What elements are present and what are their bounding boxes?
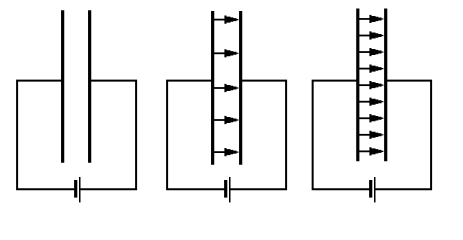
field arrow 4 circuit3 bbox=[358, 65, 384, 73]
field arrow 2 circuit2 bbox=[213, 49, 239, 57]
field arrow 3 circuit3 bbox=[358, 48, 384, 56]
battery B3 negative terminal bbox=[369, 180, 372, 198]
capacitor C2 right plate bbox=[239, 11, 242, 165]
field arrow 5 circuit2 bbox=[213, 148, 239, 156]
wire circuit1 right loop bbox=[80, 81, 136, 190]
battery B1 positive terminal bbox=[79, 177, 81, 202]
wire circuit3 left loop bbox=[313, 81, 371, 190]
battery B2 negative terminal bbox=[224, 180, 227, 198]
field arrow 5 circuit3 bbox=[358, 81, 384, 89]
capacitor C2 left plate bbox=[211, 11, 214, 165]
capacitor C3 right plate bbox=[384, 9, 387, 162]
wire circuit2 left loop bbox=[167, 81, 226, 190]
capacitor C1 left plate bbox=[61, 10, 64, 163]
field arrow 9 circuit3 bbox=[358, 147, 384, 155]
field arrow 4 circuit2 bbox=[213, 116, 239, 124]
battery B1 negative terminal bbox=[74, 180, 77, 198]
field arrow 7 circuit3 bbox=[358, 114, 384, 122]
field arrow 3 circuit2 bbox=[213, 84, 239, 92]
capacitor C1 right plate bbox=[88, 10, 91, 163]
wire circuit2 right loop bbox=[230, 81, 286, 190]
wire circuit3 right loop bbox=[375, 81, 431, 190]
field arrow 8 circuit3 bbox=[358, 131, 384, 139]
battery B2 positive terminal bbox=[229, 177, 231, 202]
wire circuit1 left loop bbox=[17, 81, 76, 190]
field arrow 2 circuit3 bbox=[358, 31, 384, 39]
field arrow 1 circuit3 bbox=[358, 15, 384, 23]
field arrow 1 circuit2 bbox=[213, 16, 239, 24]
battery B3 positive terminal bbox=[374, 177, 376, 202]
field arrow 6 circuit3 bbox=[358, 98, 384, 106]
capacitor C3 left plate bbox=[356, 9, 359, 162]
